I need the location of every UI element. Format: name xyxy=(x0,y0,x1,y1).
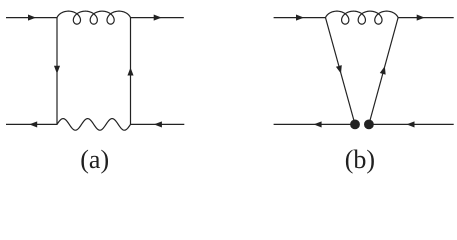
arrow down-right on (b) left diagonal xyxy=(336,65,342,74)
arrow left on (a) bottom-left line xyxy=(29,121,37,127)
gluon G2 between top vertices of (b) xyxy=(326,11,399,24)
wire: (b) bottom-right antiquark line xyxy=(369,123,454,125)
arrow left on (b) bottom-left line xyxy=(314,121,322,127)
label (a) xyxy=(80,145,109,175)
arrow right on (a) top-right line xyxy=(154,15,162,21)
wire: (a) right vertical quark propagator xyxy=(130,18,132,125)
vertex blob V2 (right effective vertex dot) xyxy=(364,120,374,130)
wire: (a) bottom-right antiquark line xyxy=(131,123,185,125)
gluon G1 between top vertices of (a) xyxy=(57,11,131,24)
label (b) xyxy=(345,145,375,175)
arrow right on (b) top-right line xyxy=(417,15,425,21)
wire: (a) top-left quark line xyxy=(6,17,57,19)
wire: (a) left vertical quark propagator xyxy=(56,18,58,125)
arrow down on (a) left vertical xyxy=(54,66,60,74)
arrow up on (a) right vertical xyxy=(127,68,133,76)
wire: (a) top-right quark line xyxy=(131,17,184,19)
arrow right on (b) top-left line xyxy=(296,15,304,21)
wire: (b) bottom-left antiquark line xyxy=(274,123,355,125)
photon wavy line between bottom vertices of (a) xyxy=(57,119,131,131)
arrow up-right on (b) right diagonal xyxy=(380,66,386,75)
vertex blob V1 (left effective vertex dot) xyxy=(350,120,360,130)
arrow right on (a) top-left line xyxy=(28,15,36,21)
wire: (b) top-left quark line xyxy=(274,17,326,19)
wire: (b) right diagonal quark line from right blob xyxy=(369,18,398,125)
wire: (b) left diagonal quark line to left blob xyxy=(326,18,356,125)
arrow left on (a) bottom-right line xyxy=(154,121,162,127)
wire: (a) bottom-left antiquark line xyxy=(6,123,57,125)
arrow left on (b) bottom-right line xyxy=(407,121,415,127)
wire: (b) top-right quark line xyxy=(398,17,454,19)
